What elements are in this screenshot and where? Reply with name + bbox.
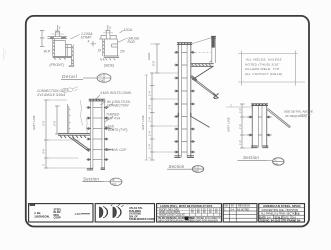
dim line 2	[55, 106, 60, 134]
top dim tick	[55, 25, 60, 31]
svg-text:3'-6: 3'-6	[42, 149, 46, 154]
extension horizontals	[46, 99, 67, 101]
lower diagonal	[191, 116, 210, 127]
notch top-right	[112, 44, 118, 47]
svg-text:A: A	[194, 165, 196, 169]
leaders/diagonals to the right	[105, 104, 113, 109]
svg-text:D4: D4	[113, 182, 117, 186]
main block	[53, 39, 66, 57]
column	[178, 45, 191, 158]
base	[104, 56, 119, 57]
svg-text:JOB NO. 84-1162 STD-FRAME D4: JOB NO. 84-1162 STD-FRAME D4	[260, 219, 301, 223]
ledge	[58, 99, 105, 170]
svg-text:(SIDE): (SIDE)	[104, 64, 115, 68]
svg-text:STEELWORKS CORP: STEELWORKS CORP	[129, 218, 155, 221]
svg-text:CORP: CORP	[54, 217, 62, 220]
bolt arrows both sides of column	[87, 107, 109, 161]
svg-text:ALL WELDS, UNLESS: ALL WELDS, UNLESS	[245, 58, 282, 62]
svg-text:10: 10	[98, 49, 102, 53]
brace	[267, 109, 291, 129]
svg-text:GIRT LINE: GIRT LINE	[141, 114, 145, 130]
base	[53, 57, 72, 58]
sheet border frame	[26, 16, 309, 227]
svg-text:2'-8: 2'-8	[53, 121, 57, 127]
svg-text:D4: D4	[100, 78, 104, 82]
left dim	[40, 31, 45, 47]
svg-text:W/ M.B. CLIP: W/ M.B. CLIP	[107, 148, 127, 152]
svg-text:D4: D4	[275, 162, 279, 166]
column cap	[177, 43, 192, 45]
svg-text:STRAP: STRAP	[81, 36, 93, 40]
leader to note	[71, 35, 80, 40]
clip above cap	[55, 32, 59, 37]
svg-text:Detail: Detail	[62, 74, 78, 79]
svg-text:BOLTS (TYP): BOLTS (TYP)	[108, 128, 127, 132]
svg-text:ROD: ROD	[128, 40, 136, 44]
splice marks	[178, 113, 191, 117]
brace fascia->column	[192, 67, 213, 80]
main block	[103, 39, 118, 56]
box2 content: DD logo	[100, 204, 124, 218]
right bracket	[66, 45, 74, 58]
svg-text:3: 3	[109, 26, 111, 30]
cap	[251, 104, 268, 106]
svg-text:2%: 2%	[119, 49, 125, 53]
tail below base	[69, 58, 74, 67]
column flanges	[90, 101, 104, 170]
eave strut	[191, 64, 214, 67]
svg-text:4-8%: 4-8%	[75, 212, 82, 216]
fascia hooks	[211, 36, 216, 38]
kicker	[192, 78, 216, 96]
svg-text:LOADS (PSF) - MUST BE POSTED A: LOADS (PSF) - MUST BE POSTED AT SITE	[160, 204, 213, 208]
svg-text:12GA.: 12GA.	[124, 28, 133, 32]
dim line 1	[44, 100, 49, 168]
svg-text:MFG CERTIFICATION CHART: MFG CERTIFICATION CHART	[159, 220, 192, 223]
svg-text:AS NOTED: AS NOTED	[237, 208, 249, 211]
svg-text:ALL CONTACT (FIELD): ALL CONTACT (FIELD)	[244, 72, 282, 76]
wall line	[67, 104, 68, 133]
svg-text:1'-4: 1'-4	[148, 117, 152, 122]
column cap and base	[89, 99, 106, 101]
column	[252, 105, 266, 148]
svg-text:4"x3 ANGLE 3/16x4: 4"x3 ANGLE 3/16x4	[37, 93, 66, 97]
dashed line	[191, 51, 211, 53]
connection plate	[191, 76, 198, 81]
box1 content	[30, 204, 35, 206]
fascia	[212, 36, 216, 63]
svg-text:GIRT LINE: GIRT LINE	[227, 116, 231, 132]
svg-text:1'-6: 1'-6	[238, 124, 242, 129]
svg-text:Section: Section	[243, 155, 259, 160]
svg-text:SEE DWG FOR ANCHOR: SEE DWG FOR ANCHOR	[190, 220, 218, 223]
svg-text:AMERICAN STEEL SPAN: AMERICAN STEEL SPAN	[263, 204, 300, 208]
svg-text:3'-0: 3'-0	[42, 121, 46, 126]
svg-text:Section: Section	[169, 164, 185, 169]
svg-text:D4: D4	[194, 169, 198, 173]
svg-text:GIRT LINE: GIRT LINE	[32, 114, 36, 130]
svg-text:(FRONT): (FRONT)	[50, 63, 64, 67]
cap flange dark blocks	[50, 37, 66, 39]
svg-text:1'-4: 1'-4	[148, 131, 152, 136]
svg-text:CLIP 4"x4: CLIP 4"x4	[106, 116, 120, 120]
svg-text:FILLERS WELD, TYP.: FILLERS WELD, TYP.	[245, 67, 280, 71]
base	[251, 146, 268, 148]
dim line	[240, 104, 245, 148]
svg-text:4-M.B. BOLTS CONN.: 4-M.B. BOLTS CONN.	[100, 91, 132, 95]
roof slope	[191, 38, 212, 44]
svg-text:W.P.: W.P.	[44, 50, 51, 54]
svg-text:3: 3	[59, 26, 61, 30]
dim lines	[155, 44, 160, 73]
break line / leader	[80, 100, 83, 125]
svg-text:1'-4: 1'-4	[148, 91, 152, 96]
faint scan mark left edge	[2, 48, 5, 60]
svg-text:4: 4	[88, 40, 90, 44]
X mark	[213, 93, 218, 98]
column base	[174, 156, 194, 158]
svg-text:Section: Section	[83, 177, 99, 182]
extensions	[226, 106, 253, 108]
svg-text:1'-0: 1'-0	[238, 108, 242, 113]
svg-text:8'-0: 8'-0	[152, 61, 156, 66]
extension horizontals	[150, 43, 160, 45]
svg-text:1'-4: 1'-4	[148, 104, 152, 109]
svg-text:1'-4: 1'-4	[148, 144, 152, 149]
column bolt rows with arrows	[174, 51, 195, 153]
svg-text:1'-0: 1'-0	[238, 140, 242, 145]
cap plate	[47, 37, 67, 39]
svg-text:EAVE: EAVE	[147, 53, 151, 60]
knee brace below ledge	[70, 138, 91, 152]
svg-text:J.BENSON.: J.BENSON.	[34, 215, 50, 219]
svg-text:NOTED (THUS) 3/16": NOTED (THUS) 3/16"	[245, 62, 280, 66]
cap hat profile	[99, 35, 117, 39]
